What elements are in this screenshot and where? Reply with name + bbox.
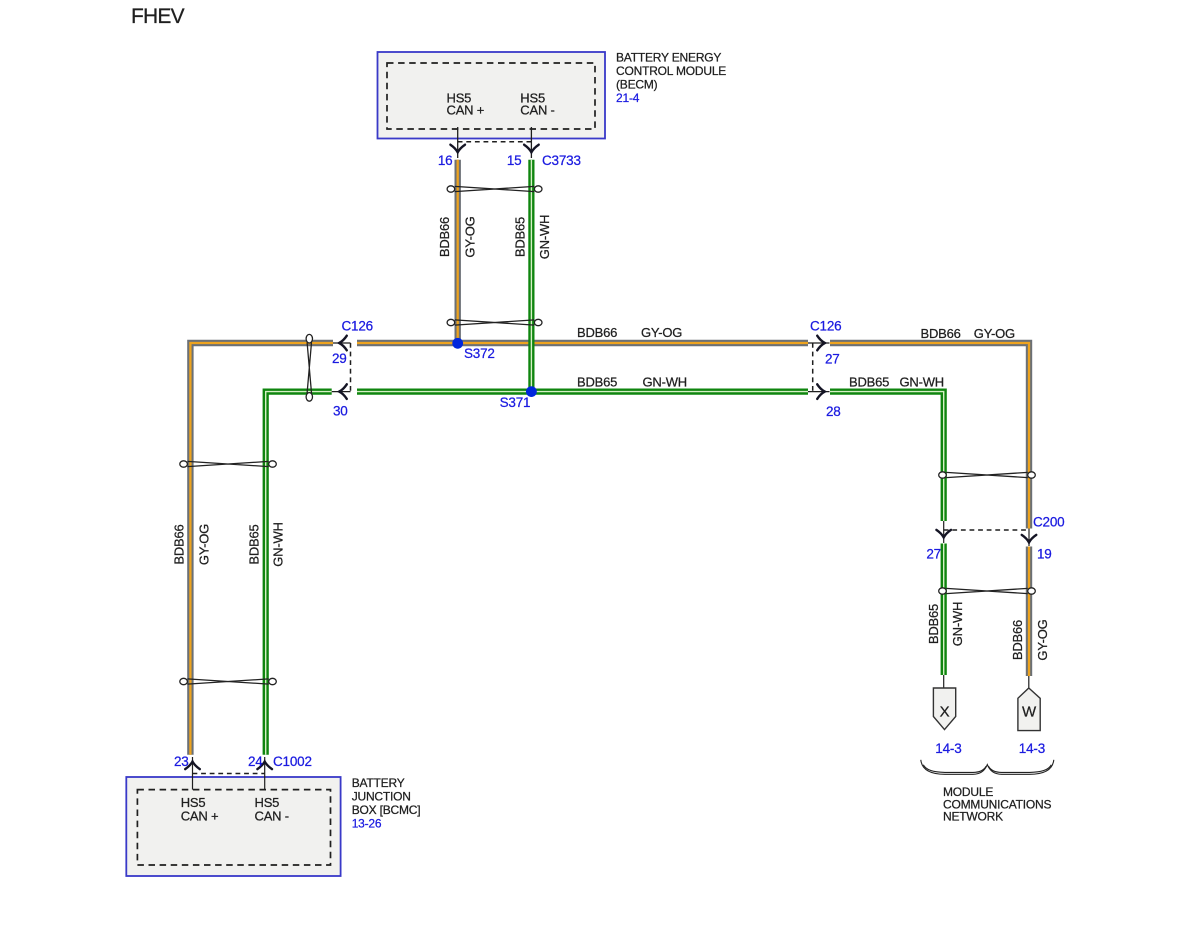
svg-text:BDB65: BDB65 [926,604,941,644]
wire BDB65 GN-WH: right L down [830,392,944,521]
pin label HS5 CAN + (BJB) [181,795,219,824]
svg-text:BATTERY: BATTERY [352,776,405,790]
C1002 arrow pin 24 [257,757,272,790]
C200 arrow on BDB65 [936,521,951,543]
splice S372 [452,338,463,349]
wire BDB66 GY-OG: BECM drop [455,160,461,343]
rotated wire labels right tan [1010,619,1050,660]
wire BDB65 GN-WH: BECM drop [528,160,534,392]
svg-text:27: 27 [926,546,941,561]
svg-text:14-3: 14-3 [1019,741,1045,756]
svg-text:CAN -: CAN - [520,103,554,118]
svg-text:21-4: 21-4 [616,91,640,105]
svg-text:BDB65: BDB65 [512,217,527,257]
BECM title text [616,50,726,105]
svg-text:13-26: 13-26 [352,817,382,831]
svg-text:15: 15 [507,153,522,168]
svg-text:BDB66: BDB66 [921,326,961,341]
svg-text:BDB65: BDB65 [247,524,262,564]
svg-text:29: 29 [332,351,347,366]
wire BDB65 GN-WH: right lower drop [941,544,947,676]
C126 left arrow on BDB65 [332,384,351,399]
svg-text:27: 27 [825,352,840,367]
wire label BDB66 GY-OG (top middle) [577,325,682,340]
svg-text:19: 19 [1037,546,1052,561]
svg-text:BDB66: BDB66 [577,325,617,340]
twisted pair symbol (left pair, lower) [180,678,277,684]
rotated wire labels right green [926,602,965,647]
svg-text:GN-WH: GN-WH [271,522,286,567]
svg-text:JUNCTION: JUNCTION [352,790,411,804]
wire BDB66 GY-OG: right lower drop [1026,547,1032,677]
twisted pair symbol (right pair, upper) [939,472,1036,478]
wire BDB65 GN-WH: middle horizontal [357,389,808,395]
svg-text:(BECM): (BECM) [616,77,658,91]
svg-text:BATTERY ENERGY: BATTERY ENERGY [616,50,721,64]
C200 arrow on BDB66 [1022,529,1037,547]
connector C200 dashed line [944,529,1029,531]
svg-text:BDB66: BDB66 [1010,620,1025,660]
svg-text:GN-WH: GN-WH [643,375,688,390]
svg-text:GY-OG: GY-OG [641,325,682,340]
svg-text:14-3: 14-3 [935,741,961,756]
connector C126 left: dashed line [350,343,352,392]
svg-text:GN-WH: GN-WH [950,602,965,647]
connector C126 right: dashed line [812,343,814,392]
pin label HS5 CAN + (BECM) [447,90,485,117]
pin label HS5 CAN - (BECM) [520,90,554,117]
svg-text:BDB65: BDB65 [577,375,617,390]
svg-text:BDB66: BDB66 [437,217,452,257]
svg-text:C126: C126 [810,319,841,334]
rotated wire labels BECM pair [437,215,552,260]
C126 right arrow on BDB66 [808,336,830,351]
svg-text:W: W [1022,704,1037,721]
connector C1002 dashed line [193,773,265,775]
svg-text:BDB66: BDB66 [172,524,187,564]
svg-text:GY-OG: GY-OG [974,326,1015,341]
pin label HS5 CAN - (BJB) [255,795,289,824]
C126 left arrow on BDB66 [333,336,351,351]
rotated wire labels left pair [172,522,286,567]
svg-text:CAN +: CAN + [447,103,485,118]
svg-text:CAN +: CAN + [181,809,219,824]
module BECM box [378,52,606,139]
svg-text:GY-OG: GY-OG [1035,619,1050,660]
C126 right arrow on BDB65 [808,384,830,399]
svg-text:GY-OG: GY-OG [197,524,212,565]
twisted pair symbol (BECM pair, upper) [447,186,542,192]
wire BDB66 GY-OG: right L down [830,343,1029,529]
svg-text:16: 16 [438,153,453,168]
module BJB box [126,777,340,876]
svg-text:X: X [940,704,950,721]
off-page connector W [1018,676,1040,731]
svg-text:C126: C126 [342,319,373,334]
wire label BDB65 GN-WH (right) [849,375,944,390]
wire BDB66 GY-OG: left L to BJB [190,343,333,755]
wire BDB66 GY-OG: middle horizontal [357,340,808,346]
twisted pair symbol (vertical, left C126 area) [306,334,312,401]
wire label BDB65 GN-WH (middle) [577,375,687,390]
svg-text:BOX [BCMC]: BOX [BCMC] [352,803,421,817]
svg-text:C1002: C1002 [273,754,312,769]
pin 16 lead arrow [450,127,465,158]
svg-text:GN-WH: GN-WH [900,375,945,390]
svg-text:30: 30 [333,404,348,419]
label module communications network [943,785,1052,823]
svg-text:FHEV: FHEV [131,5,185,28]
svg-text:23: 23 [174,754,189,769]
twisted pair symbol (right pair, lower) [939,588,1036,594]
brace module communications network [921,760,1054,775]
svg-text:GY-OG: GY-OG [463,216,478,257]
BJB title text [352,776,421,830]
off-page connector X [933,675,955,730]
svg-text:C200: C200 [1033,515,1064,530]
svg-text:C3733: C3733 [542,153,581,168]
splice S371 [526,386,537,397]
svg-text:BDB65: BDB65 [849,375,889,390]
svg-text:CAN -: CAN - [255,809,289,824]
svg-text:CONTROL MODULE: CONTROL MODULE [616,64,726,78]
wire label BDB66 GY-OG (top right) [921,326,1016,341]
twisted pair symbol (BECM pair, lower) [447,319,542,325]
svg-text:28: 28 [826,404,841,419]
svg-text:24: 24 [248,754,263,769]
connector C3733 dashed line [458,141,532,143]
svg-text:NETWORK: NETWORK [943,810,1003,824]
svg-text:S372: S372 [464,346,495,361]
twisted pair symbol (left pair, upper) [180,461,277,467]
C1002 arrow pin 23 [185,757,200,790]
pin 15 lead arrow [524,127,539,158]
wire BDB65 GN-WH: left L to BJB [266,392,332,755]
svg-text:S371: S371 [500,395,531,410]
svg-text:GN-WH: GN-WH [537,215,552,260]
